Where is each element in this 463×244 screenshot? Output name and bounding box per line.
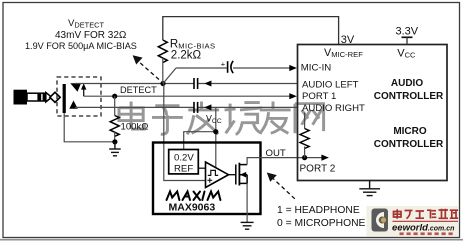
电子工程世界 red text approximated bbox=[394, 209, 459, 219]
svg-text:AUDIO RIGHT: AUDIO RIGHT bbox=[302, 103, 365, 114]
jack switch arrow bbox=[81, 83, 86, 96]
annotation VDETECT text bbox=[25, 18, 137, 51]
arrowhead into MIC-IN pin bbox=[289, 65, 297, 71]
resistor R MIC-BIAS bbox=[158, 40, 167, 84]
node A: detect node dot bbox=[160, 81, 165, 86]
transistor Q1 mosfet bbox=[229, 163, 248, 186]
wire: detect line to PORT 1 bbox=[84, 95, 290, 97]
capacitor audio right bbox=[194, 102, 198, 113]
svg-text:0.2V: 0.2V bbox=[174, 153, 194, 164]
svg-text:+: + bbox=[221, 59, 226, 68]
wire: sleeve to ground bbox=[64, 113, 115, 142]
MAX9063 block bbox=[153, 143, 261, 215]
svg-text:1 = HEADPHONE: 1 = HEADPHONE bbox=[277, 205, 360, 216]
wire: VCC tap from ring line bbox=[184, 107, 216, 168]
resistor 100k (detect pulldown) bbox=[110, 96, 119, 142]
svg-text:100kΩ: 100kΩ bbox=[121, 122, 149, 133]
arrowhead into PORT 2 pin bbox=[321, 155, 329, 161]
controller block bbox=[298, 45, 448, 181]
svg-text:MAX9063: MAX9063 bbox=[169, 202, 216, 214]
jack ring contact triangle bbox=[69, 101, 78, 109]
svg-text:3.3V: 3.3V bbox=[396, 25, 419, 37]
电 bbox=[119, 101, 144, 129]
dashed arrow from detect node to VDETECT text bbox=[133, 55, 159, 79]
controller labels bbox=[300, 47, 417, 175]
ground (jack) bbox=[109, 142, 121, 156]
wire: mosfet drain to OUT / PORT 2 bbox=[247, 158, 322, 165]
mosfet body arrow bbox=[240, 172, 246, 178]
svg-text:AUDIO LEFT: AUDIO LEFT bbox=[302, 79, 359, 90]
svg-text:CONTROLLER: CONTROLLER bbox=[374, 91, 444, 102]
svg-text:2.2kΩ: 2.2kΩ bbox=[171, 50, 202, 62]
headphone plug bbox=[14, 90, 61, 105]
友 bbox=[260, 101, 291, 133]
jack socket dashed box bbox=[57, 77, 101, 116]
wire: detect node down to comparator bbox=[164, 84, 206, 181]
arrowhead into PORT 1 pin bbox=[289, 93, 297, 99]
annotation 1=HEADPHONE 0=MICROPHONE bbox=[277, 205, 366, 229]
wire: top rail from R mic-bias to 3V entry bbox=[163, 17, 339, 45]
wire: mic-in branch diagonal and line bbox=[163, 68, 290, 84]
MAXIM logo and MAX9063 label bbox=[167, 192, 221, 201]
svg-text:REF: REF bbox=[174, 164, 193, 175]
ground (controller) bbox=[359, 181, 380, 196]
junction: VCC / 0.2V REF / comparator supply bbox=[213, 129, 218, 134]
junction: sleeve wire / 100k / ground bbox=[112, 139, 117, 144]
watermark 电子发烧友网 bbox=[119, 101, 324, 134]
ground (MAX9063) bbox=[241, 222, 254, 229]
wire: mosfet source to ground bbox=[246, 183, 248, 222]
resistor 100k pullup on PORT 2 bbox=[300, 113, 309, 158]
svg-text:AUDIO: AUDIO bbox=[391, 78, 423, 89]
烧 bbox=[225, 103, 262, 135]
dashed arrow to OUT line bbox=[267, 173, 295, 199]
svg-text:CONTROLLER: CONTROLLER bbox=[374, 139, 444, 150]
svg-text:1.9V FOR 500μA MIC-BIAS: 1.9V FOR 500μA MIC-BIAS bbox=[25, 41, 137, 51]
wire: ring line to AUDIO RIGHT bbox=[75, 106, 298, 108]
svg-text:PORT 2: PORT 2 bbox=[300, 163, 336, 174]
capacitor mic-in (polarized) bbox=[228, 61, 234, 73]
capacitor audio left bbox=[194, 78, 198, 89]
svg-text:PORT 1: PORT 1 bbox=[302, 91, 336, 102]
wire: tip line to AUDIO LEFT bbox=[75, 83, 298, 85]
网 bbox=[295, 104, 324, 134]
op-amp U1 comparator bbox=[198, 162, 228, 188]
svg-text:VDETECT: VDETECT bbox=[68, 18, 104, 30]
svg-text:DETECT: DETECT bbox=[120, 85, 157, 95]
svg-text:0 = MICROPHONE: 0 = MICROPHONE bbox=[277, 218, 366, 229]
svg-text:OUT: OUT bbox=[266, 148, 286, 159]
junction: OUT line / 100k pullup bbox=[302, 155, 307, 160]
svg-text:MICRO: MICRO bbox=[393, 126, 427, 137]
arrow left on audio-right line bbox=[204, 104, 211, 110]
子 bbox=[152, 106, 183, 135]
jack sleeve bar bbox=[63, 84, 66, 113]
arrow left on audio-left line bbox=[204, 81, 211, 87]
发 bbox=[187, 101, 219, 134]
0.2V REF box bbox=[169, 150, 199, 174]
junction: detect line / 100k resistor bbox=[112, 94, 117, 99]
3.3V supply bbox=[396, 25, 419, 44]
jack tip contact triangle bbox=[70, 83, 81, 92]
svg-text:MIC-IN: MIC-IN bbox=[301, 63, 331, 74]
eeworld logo bbox=[367, 206, 459, 237]
svg-text:43mV FOR 32Ω: 43mV FOR 32Ω bbox=[55, 30, 127, 41]
